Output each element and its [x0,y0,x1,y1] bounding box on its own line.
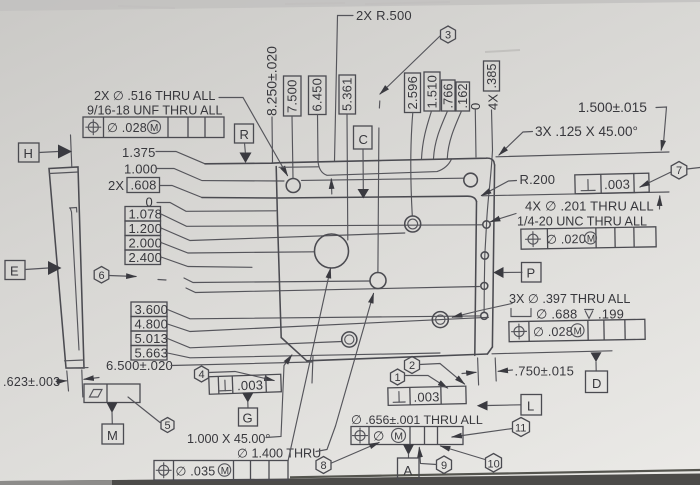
svg-text:.623±.003: .623±.003 [3,375,60,389]
M circle modifier [148,121,161,134]
svg-text:.766: .766 [442,83,456,108]
dim .608 leader into step line [160,186,202,198]
inner step vertical line [475,202,477,356]
dim .766 box [442,80,456,111]
balloon 3 hexagon [441,26,456,43]
leader to small hole 3 [186,287,480,293]
dim 2.000 box [125,236,161,251]
balloon 8 hexagon [316,457,331,474]
svg-text:2.596: 2.596 [405,76,420,110]
dim 0 leader [157,203,276,212]
hole .656 [370,273,386,289]
note .516 leader [219,98,288,176]
svg-text:R: R [240,127,250,142]
plate chamfer second line top [279,166,319,169]
R.500 up arrow at fillet [330,179,333,194]
leader .656 note to hole [336,294,374,427]
note 1.400 dash [316,426,336,452]
dim .623 right ext line [82,370,83,397]
dim 6.500 ext line [312,356,313,383]
datum E filled triangle [48,261,62,275]
svg-text:∅ .028: ∅ .028 [107,121,147,135]
svg-text:4X: 4X [486,94,501,110]
flatness symbol [90,390,103,398]
svg-text:2: 2 [409,360,415,372]
svg-text:2X ∅ .516 THRU ALL: 2X ∅ .516 THRU ALL [94,89,215,103]
side view inner step vertical [70,208,79,350]
dim .623 right arrow [84,378,99,380]
balloon 4 hexagon [195,366,209,382]
balloon 7 hexagon [671,162,687,180]
datum P box [522,263,542,283]
balloon 11 hexagon [513,418,530,437]
dim 4.800 box [131,317,167,332]
dim .750 ext line left [478,358,479,385]
datum M box [102,424,124,444]
dim 6.450 box [309,76,327,115]
svg-text:E: E [10,264,19,279]
counterbore A outer [405,216,421,232]
note R.200 leader [482,181,517,196]
datum H filled triangle [58,145,72,159]
svg-text:H: H [24,146,34,161]
svg-text:.608: .608 [131,178,157,193]
step line extension right [482,192,669,196]
dim .750 left arrow [462,372,476,373]
balloon 1 leader [405,376,448,389]
top edge extension line right [496,152,669,157]
counterbore B outer [342,332,357,347]
balloon 3 tick [378,101,380,108]
balloon 10 leader [441,446,486,460]
svg-text:L: L [527,399,534,414]
datum R box [235,124,254,143]
svg-text:2X: 2X [108,178,124,193]
svg-text:A: A [404,463,413,478]
FCF position .656 frame [351,427,463,445]
dim .623 left ext line [67,371,69,391]
svg-text:.385: .385 [485,63,499,88]
datum L leader [488,404,522,407]
hole 2X .516 top-right [464,173,478,187]
dim .750 ext line right [495,358,496,381]
counterbore A inner [408,219,418,229]
dim .162 box [456,82,470,111]
dim 5.013 leader to counterbore B [168,339,342,348]
datum G filled triangle [242,393,254,403]
dim 2.000 leader to big hole center [161,243,315,254]
datum H box [19,143,40,162]
plate bottom edge [307,354,488,361]
datum D box [586,371,608,393]
svg-text:∅ 1.400 THRU: ∅ 1.400 THRU [237,447,321,461]
balloon 6 leader [109,276,136,277]
datum G shaft [247,402,249,408]
counterbore symbol [511,309,531,317]
svg-text:6.450: 6.450 [310,78,325,112]
centerline to .656 hole [378,128,379,273]
svg-text:4: 4 [199,369,205,381]
svg-text:1/4-20 UNC THRU ALL: 1/4-20 UNC THRU ALL [517,215,647,229]
inner step line horizontal [202,196,477,201]
leader FCF .035 to big hole [288,269,331,462]
svg-text:G: G [243,411,253,426]
svg-text:1.000 X 45.00°: 1.000 X 45.00° [187,432,270,446]
balloon 7 line to sheet edge [687,168,700,170]
datum P leader [504,271,523,273]
datum A filled triangle [403,445,414,456]
svg-text:3X ∅ .397 THRU ALL: 3X ∅ .397 THRU ALL [509,292,630,306]
plate left edge [276,167,281,338]
datum D filled triangle [591,352,602,362]
dim .623 left arrow [60,380,67,382]
svg-text:C: C [359,132,369,147]
dim 1.078 leader to small hole 1 [161,214,483,226]
svg-text:1: 1 [395,372,401,384]
dim 6.500 leader [171,362,312,366]
svg-text:11: 11 [515,423,526,435]
svg-text:2.400: 2.400 [129,250,163,265]
dim 1.375 leader [156,152,205,164]
datum D shaft [595,362,597,371]
svg-text:M: M [221,466,229,477]
dim 3.600 leader to small hole 4 [168,310,481,319]
perpendicularity symbol [224,380,226,390]
M circle modifier [392,428,406,442]
svg-text:2X R.500: 2X R.500 [356,8,412,23]
datum A box [398,458,420,480]
counterbore C outer [432,312,448,328]
svg-text:M: M [573,326,582,337]
dim 1.510 box [424,72,440,111]
svg-text:.003: .003 [413,389,439,405]
dim 1.500 top arrow [661,143,663,150]
svg-text:∅ .656±.001 THRU ALL: ∅ .656±.001 THRU ALL [351,413,483,427]
bottom edge extension right [492,351,612,354]
balloon 4 leader [209,372,275,381]
note 2X R.500 leader [335,16,354,162]
svg-text:1.500±.015: 1.500±.015 [578,100,647,115]
small hole 3 [481,282,488,289]
hole 1.400 big center [315,234,349,268]
FCF perpendicularity .003 center frame [388,386,466,405]
balloon 6 phantom line to .656 hole [184,278,370,283]
position symbol [528,234,538,244]
position symbol [88,122,98,132]
datum H extension line above side view [71,135,72,167]
dim 3.600 box [131,302,167,317]
svg-text:7.500: 7.500 [285,79,300,113]
FCF position .028 top-left frame [83,117,224,138]
svg-text:0: 0 [468,103,483,110]
dim 2.596 box [405,73,421,113]
datum M triangle [107,403,118,414]
sheet border line bottom right [290,470,700,477]
plate top edge [205,158,495,165]
svg-text:1.078: 1.078 [129,207,163,222]
dim .750 right arrow [498,370,512,371]
plate bottom-right chamfer [487,347,492,354]
counterbore B inner [345,335,354,344]
svg-text:M: M [394,430,403,442]
dim 1.500 bottom arrow [659,196,661,209]
svg-text:7: 7 [676,165,682,177]
svg-text:5: 5 [165,420,171,432]
dim 7.500 ext line [292,116,293,178]
side view inner step notch [70,208,77,213]
dim 2.596 ext line to counterbore A [411,113,413,217]
svg-text:9: 9 [441,460,447,472]
svg-text:.003: .003 [604,177,630,193]
dim 2.400 leader [161,257,252,267]
FCF perpendicularity .003 right frame [575,173,649,194]
balloon 6 hexagon [94,267,109,284]
dim 5.361 box [339,75,356,114]
balloon 11 leader [452,429,513,438]
svg-text:M: M [107,428,118,443]
dim 5.663 leader [168,353,441,358]
position symbol [355,431,365,441]
datum L box [521,395,542,416]
balloon 1 hexagon [391,369,405,385]
svg-text:1.375: 1.375 [122,145,156,160]
svg-text:∅: ∅ [373,429,385,444]
dim 6.450 ext line with 2X R.500 step band [318,115,452,176]
svg-text:2.000: 2.000 [129,236,163,251]
dim 5.013 box [131,331,167,346]
datum C box [354,126,373,149]
bottom band lighter left segment [0,480,112,485]
datum R shaft [244,143,247,152]
dim 1.200 box [125,221,161,236]
note 3X .397 leader [453,304,513,318]
svg-text:1.200: 1.200 [129,221,163,236]
position symbol [514,326,524,336]
perpendicularity symbol [587,180,589,191]
FCF position .028 right frame [509,319,645,341]
paper bottom dark band [0,474,700,485]
datum H leader [39,152,58,153]
svg-text:∅ .035: ∅ .035 [176,465,216,479]
datum R filled triangle [240,153,252,164]
note 1.000 X 45 leader [266,355,292,438]
side view lower tick line [65,359,85,362]
dim 1.000 leader [157,169,284,182]
svg-text:.003: .003 [237,377,264,393]
balloon 3 leader [380,36,440,94]
position symbol [159,465,169,475]
balloon 9 leader [419,448,436,465]
side view bottom cap overshoot [66,367,88,370]
ghost marks top [118,2,520,52]
dim .162 ext line [447,111,461,158]
svg-text:5.361: 5.361 [340,77,355,111]
depth symbol [585,310,594,319]
svg-text:3: 3 [445,30,451,42]
datum E leader [25,268,48,270]
dim 1.510 ext line [422,111,432,159]
datum C shaft [362,149,364,189]
datum L filled triangle [477,401,488,411]
FCF perpendicularity .003 bottom frame [209,374,282,394]
M circle modifier [584,232,596,244]
balloon 2 hexagon [405,357,420,374]
balloon 8 leader [332,443,380,464]
datum P filled triangle [493,267,503,278]
plate right edge [492,165,494,347]
svg-text:3X .125 X 45.00°: 3X .125 X 45.00° [535,124,638,139]
balloon 7 leader [640,172,671,187]
balloon 9 hexagon [437,456,452,474]
FCF position .035 frame [154,461,288,481]
dim 5.361 ext line [346,114,349,240]
svg-text:R.200: R.200 [520,172,556,187]
note chamfer leader [499,132,533,156]
svg-text:M: M [150,123,158,134]
svg-text:6.500±.020: 6.500±.020 [106,358,173,373]
datum C filled triangle [358,189,370,199]
dim 4.800 leader to counterbore C [168,317,489,331]
svg-text:D: D [592,376,602,391]
balloon 6 dash a [158,279,166,282]
small hole 1 [483,221,490,228]
svg-text:3.600: 3.600 [135,302,169,317]
svg-text:1.510: 1.510 [425,75,440,109]
balloon 2 leader [420,364,465,385]
FCF position .020 frame [521,227,656,249]
dim 1.200 leader to counterbore A [161,228,405,241]
balloon 10 hexagon [486,454,502,473]
dim 2.400 box [125,250,161,265]
svg-text:M: M [587,234,596,245]
svg-text:10: 10 [488,459,500,471]
dim 0 top ext line [474,110,477,157]
svg-text:6: 6 [99,270,105,282]
svg-text:5.013: 5.013 [135,331,169,346]
svg-text:4.800: 4.800 [135,317,169,332]
svg-text:.750±.015: .750±.015 [515,364,575,379]
note 4X .201 leader [491,214,517,222]
balloon 5 leader [128,397,160,423]
svg-text:∅ .020: ∅ .020 [546,232,586,247]
dim 1.500 elbow [656,107,667,143]
side view outer profile [49,167,84,368]
dim 4X .385 box [484,61,500,91]
datum A shaft [408,454,410,458]
datum E box [5,261,25,280]
dim 7.500 box [284,76,302,116]
balloon 5 hexagon [161,418,174,433]
M circle modifier [571,324,584,337]
dim 1.000 leader continuation to right hole [302,178,464,180]
dim 8.250 ext line [271,117,274,162]
svg-text:8.250±.020: 8.250±.020 [264,46,280,116]
dim 1.078 box [125,207,161,222]
svg-text:4X ∅ .201 THRU ALL: 4X ∅ .201 THRU ALL [525,199,654,214]
plate bottom-left chamfer [281,338,307,361]
svg-text:1.000: 1.000 [124,162,158,177]
svg-text:8: 8 [321,460,327,472]
hole 2X .516 top-left [286,179,300,193]
flatness feature control frame [84,384,140,403]
datum M shaft [111,412,113,424]
small hole 4 [481,312,488,319]
M circle modifier [218,464,230,476]
perpendicularity symbol [398,392,400,402]
dim .385 ext line through small holes [484,110,492,312]
svg-text:∅ .028: ∅ .028 [533,325,573,340]
small hole 2 [481,252,488,259]
svg-text:∅ .688: ∅ .688 [536,307,577,322]
datum G box [239,408,258,426]
svg-text:9/16-18 UNF THRU ALL: 9/16-18 UNF THRU ALL [87,104,223,118]
dim .766 ext line [434,111,448,159]
paper top darker strip [0,0,700,11]
counterbore C inner [436,315,445,324]
svg-text:P: P [527,266,536,281]
dim 5.663 box [131,346,167,361]
side view top cap second line [50,172,79,174]
